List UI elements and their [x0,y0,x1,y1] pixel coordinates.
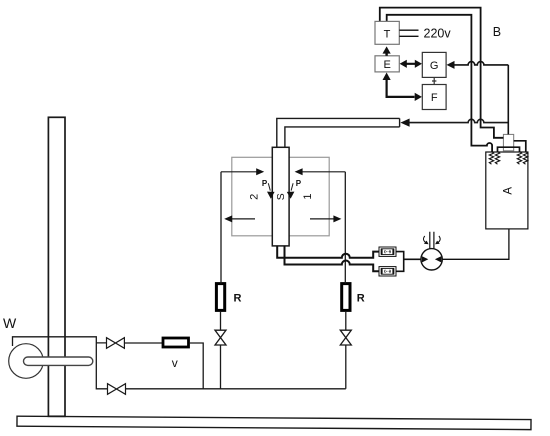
wire R1 to valve [220,311,222,389]
flow meter outlet bracket [396,252,421,272]
bottom collector wire [126,388,346,390]
resistor R2 [342,284,350,311]
valve under R2 [340,330,351,345]
svg-text:S: S [275,193,287,200]
svg-text:P: P [296,179,302,188]
right loop wire [344,172,346,284]
tank A [486,152,528,229]
wire v to bottom line [190,343,203,389]
valve v [163,338,189,347]
svg-text:v: v [172,356,178,370]
wire across coils [498,147,520,152]
stand column [48,117,65,416]
box T [375,21,399,44]
svg-text:1: 1 [302,193,314,199]
top pipe (hollow) [277,118,400,147]
box G [422,52,446,77]
check valve upper [107,338,125,349]
heater junction box [503,134,513,150]
column S [272,147,289,246]
svg-text:220v: 220v [424,27,452,41]
P left arrow [268,183,270,190]
pump [421,249,442,270]
valve under R1 [215,330,226,345]
svg-text:B: B [493,25,501,39]
arrow out of chamber 2 (bottom left) [232,218,255,220]
svg-text:R: R [234,293,242,305]
220v supply lines [399,30,418,36]
box F [422,85,446,110]
wheel handle bar [24,357,93,365]
sensor wire down to junction box [507,65,509,134]
arrow into G from sensor wire [447,61,455,69]
svg-text:2: 2 [249,194,261,200]
svg-text:W: W [3,315,17,331]
svg-text:G: G [430,60,439,72]
pipe from S bottom to flow meter 2 [285,246,380,271]
svg-text:F: F [431,92,438,104]
arrow E to F [387,78,415,97]
arrow into chamber 2 (top left) [221,171,257,173]
wire box to right coil [514,141,526,152]
P right arrow [291,183,293,190]
arrow out of chamber 1 (bottom right) [310,218,334,220]
return line arrow into pipe [400,119,409,127]
left loop wire [220,172,222,284]
arrow into chamber 1 (top right) [303,171,346,173]
pipe from S bottom to flow meter 1 [277,246,379,258]
power wire right bus to junction box [380,8,504,138]
check valve lower [108,384,126,395]
wire R2 to valve [345,311,347,389]
wire valve to v [124,342,162,344]
flow meter 2 [379,267,396,276]
svg-text:R: R [357,293,365,305]
chamber outline (gray) [232,157,329,236]
svg-text:A: A [502,187,514,195]
rotation arrow right [438,236,441,243]
svg-text:E: E [384,59,391,71]
base plate [17,416,531,429]
wire from wheel to valves [13,337,108,389]
arrow E to T [385,52,387,56]
box E [375,56,399,72]
link G to F [432,77,436,84]
resistor R1 [216,284,224,311]
flow meter 1 [379,247,396,256]
heater coil right [517,152,527,165]
rotation arrow left [423,236,426,243]
svg-text:P: P [262,179,268,188]
svg-text:T: T [384,28,391,40]
double arrow E-G [403,63,420,65]
power wire left bus to coil [387,15,492,152]
heater coil left [489,152,499,165]
pump to tank wire [442,229,509,259]
pump shaft [430,232,434,249]
wheel W [9,344,44,379]
